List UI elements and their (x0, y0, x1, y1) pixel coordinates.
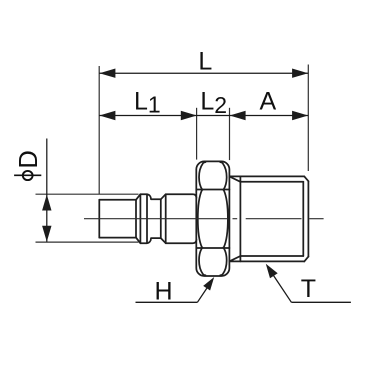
svg-text:L: L (198, 48, 212, 76)
svg-text:A: A (259, 87, 276, 115)
svg-text:H: H (154, 278, 172, 306)
svg-text:L1: L1 (134, 88, 161, 118)
svg-text:T: T (301, 275, 316, 303)
svg-text:D: D (15, 150, 43, 168)
svg-text:L2: L2 (200, 88, 227, 118)
